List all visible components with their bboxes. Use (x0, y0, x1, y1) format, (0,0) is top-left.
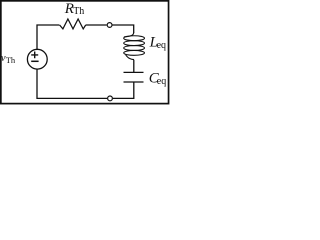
inductor Leq (124, 33, 145, 60)
wire top-left rail (37, 25, 59, 49)
svg-text:eq: eq (157, 40, 166, 51)
wire inductor to capacitor (133, 60, 135, 73)
wire resistor to node a (86, 24, 107, 26)
capacitor Ceq (124, 72, 144, 82)
svg-text:Th: Th (73, 6, 84, 17)
node a (open terminal, top) (107, 23, 112, 28)
wire node a to inductor (113, 25, 134, 33)
svg-text:Th: Th (6, 55, 16, 65)
label RTh (64, 1, 85, 17)
wire capacitor to node b (113, 82, 134, 98)
label vTh (1, 53, 16, 65)
label Ceq (149, 71, 166, 87)
label Leq (149, 35, 166, 51)
resistor RTh (60, 19, 86, 29)
wire bottom rail (37, 69, 107, 98)
node b (open terminal, bottom) (108, 96, 113, 101)
svg-text:eq: eq (157, 76, 166, 87)
voltage source vTh (27, 49, 47, 69)
